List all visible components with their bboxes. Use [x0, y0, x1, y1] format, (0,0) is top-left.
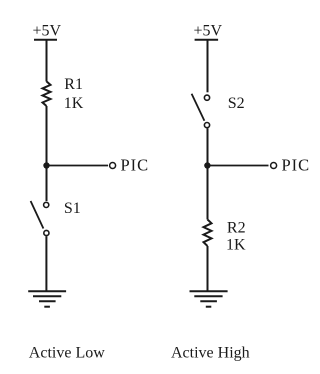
- svg-text:PIC: PIC: [121, 156, 150, 175]
- svg-text:R1: R1: [64, 76, 83, 93]
- svg-text:1K: 1K: [226, 237, 246, 254]
- svg-text:PIC: PIC: [282, 156, 311, 175]
- svg-text:Active High: Active High: [171, 345, 250, 362]
- svg-text:+5V: +5V: [194, 23, 223, 40]
- svg-text:S2: S2: [228, 95, 245, 112]
- svg-text:Active Low: Active Low: [29, 345, 105, 362]
- svg-text:R2: R2: [227, 220, 246, 237]
- svg-text:S1: S1: [64, 200, 81, 217]
- svg-text:+5V: +5V: [33, 23, 62, 40]
- svg-text:1K: 1K: [64, 95, 84, 112]
